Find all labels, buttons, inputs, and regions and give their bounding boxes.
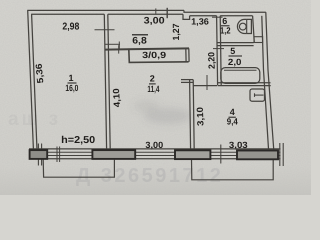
svg-text:1,2: 1,2 (220, 25, 231, 35)
svg-text:2: 2 (150, 74, 155, 84)
svg-text:9,4: 9,4 (227, 117, 238, 127)
svg-text:4,10: 4,10 (111, 88, 122, 107)
svg-text:2,20: 2,20 (206, 52, 217, 69)
svg-text:h=2,50: h=2,50 (61, 135, 95, 146)
svg-text:11,4: 11,4 (147, 84, 159, 94)
svg-text:2,98: 2,98 (62, 21, 79, 32)
svg-text:3,00: 3,00 (144, 15, 165, 26)
svg-text:1,27: 1,27 (171, 24, 181, 41)
svg-text:16,0: 16,0 (65, 83, 78, 93)
svg-text:Д 326591712: Д 326591712 (76, 165, 223, 187)
svg-text:5: 5 (230, 46, 235, 56)
svg-text:аш з: аш з (8, 109, 61, 130)
svg-text:3/0,9: 3/0,9 (142, 50, 166, 60)
svg-text:3,10: 3,10 (195, 107, 206, 126)
svg-text:3,03: 3,03 (229, 140, 248, 150)
svg-text:5,36: 5,36 (34, 63, 46, 84)
svg-text:1: 1 (68, 73, 73, 83)
svg-text:1,36: 1,36 (191, 17, 209, 27)
svg-text:2,0: 2,0 (228, 57, 242, 67)
svg-text:3,00: 3,00 (145, 140, 163, 150)
svg-text:4: 4 (230, 107, 235, 117)
svg-text:6,8: 6,8 (132, 35, 147, 46)
